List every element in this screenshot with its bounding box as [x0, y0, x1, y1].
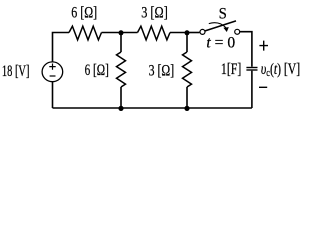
value label 6 [Ω] for R3	[85, 61, 109, 78]
resistor R4 3Ω vertical zigzag	[183, 52, 192, 87]
switch S left contact circle	[200, 29, 205, 34]
svg-text:18 [V]: 18 [V]	[2, 62, 30, 80]
node B junction dot (top of 3Ω branch)	[185, 30, 190, 35]
voltage source V1 plus mark	[49, 64, 55, 70]
voltage source V1 minus mark	[50, 75, 56, 77]
resistor R2 3Ω top horizontal zigzag	[138, 26, 171, 40]
switch S closing arrow arc with arrowhead	[209, 23, 229, 32]
value label 6 [Ω] for R1	[71, 5, 97, 22]
svg-text:3 [Ω]: 3 [Ω]	[149, 62, 175, 79]
svg-text:υc(t) [V]: υc(t) [V]	[261, 60, 300, 79]
polarity − label (capacitor voltage, bottom right)	[259, 86, 267, 88]
polarity + label (capacitor voltage, top right)	[259, 41, 268, 51]
wire: node B to switch left contact	[187, 32, 200, 34]
wire: R4 down to bottom rail	[186, 87, 188, 108]
wire: left rail below source	[52, 82, 54, 108]
switch S right contact circle	[235, 29, 240, 34]
svg-text:t = 0: t = 0	[206, 35, 235, 52]
wire: switch right contact to top-right corner, down to capacitor	[240, 32, 252, 67]
wire: node A down to R3	[120, 33, 122, 53]
voltage label vc(t) [V]	[261, 60, 300, 79]
label t = 0 (switch closes at t=0)	[206, 35, 235, 52]
value label 3 [Ω] for R4	[149, 62, 175, 79]
resistor R3 6Ω vertical zigzag	[117, 52, 126, 87]
node: junction dot bottom of R3	[118, 106, 123, 111]
value label 18 [V] for V1	[2, 62, 30, 80]
switch S blade (open)	[205, 21, 236, 31]
voltage source V1 circle	[42, 62, 63, 82]
wire: node B down to R4	[186, 33, 188, 53]
svg-text:6 [Ω]: 6 [Ω]	[85, 61, 109, 78]
wire: bottom rail from left to right	[53, 107, 252, 109]
wire: node A to R2	[121, 32, 138, 34]
wire: R1 to node A	[102, 32, 122, 34]
wire: capacitor bottom plate down to bottom-right corner	[251, 71, 253, 108]
capacitor C1 bottom plate	[246, 69, 257, 71]
value label 3 [Ω] for R2	[141, 4, 168, 22]
wire: R2 to node B	[170, 32, 187, 34]
svg-text:6 [Ω]: 6 [Ω]	[71, 5, 97, 22]
node: junction dot bottom of R4	[184, 106, 189, 111]
resistor R1 6Ω top horizontal zigzag	[69, 26, 102, 40]
svg-text:1[F]: 1[F]	[221, 60, 241, 77]
label S (switch name)	[219, 5, 227, 22]
capacitor C1 top plate	[246, 67, 257, 69]
svg-text:S: S	[219, 5, 227, 22]
value label 1[F] for C1	[221, 60, 241, 77]
svg-text:3 [Ω]: 3 [Ω]	[141, 4, 168, 22]
wire: R3 down to bottom rail	[120, 87, 122, 108]
node A junction dot (top of 6Ω branch)	[119, 30, 124, 35]
wire: top-left corner segment (left rail top to R1)	[53, 33, 70, 63]
